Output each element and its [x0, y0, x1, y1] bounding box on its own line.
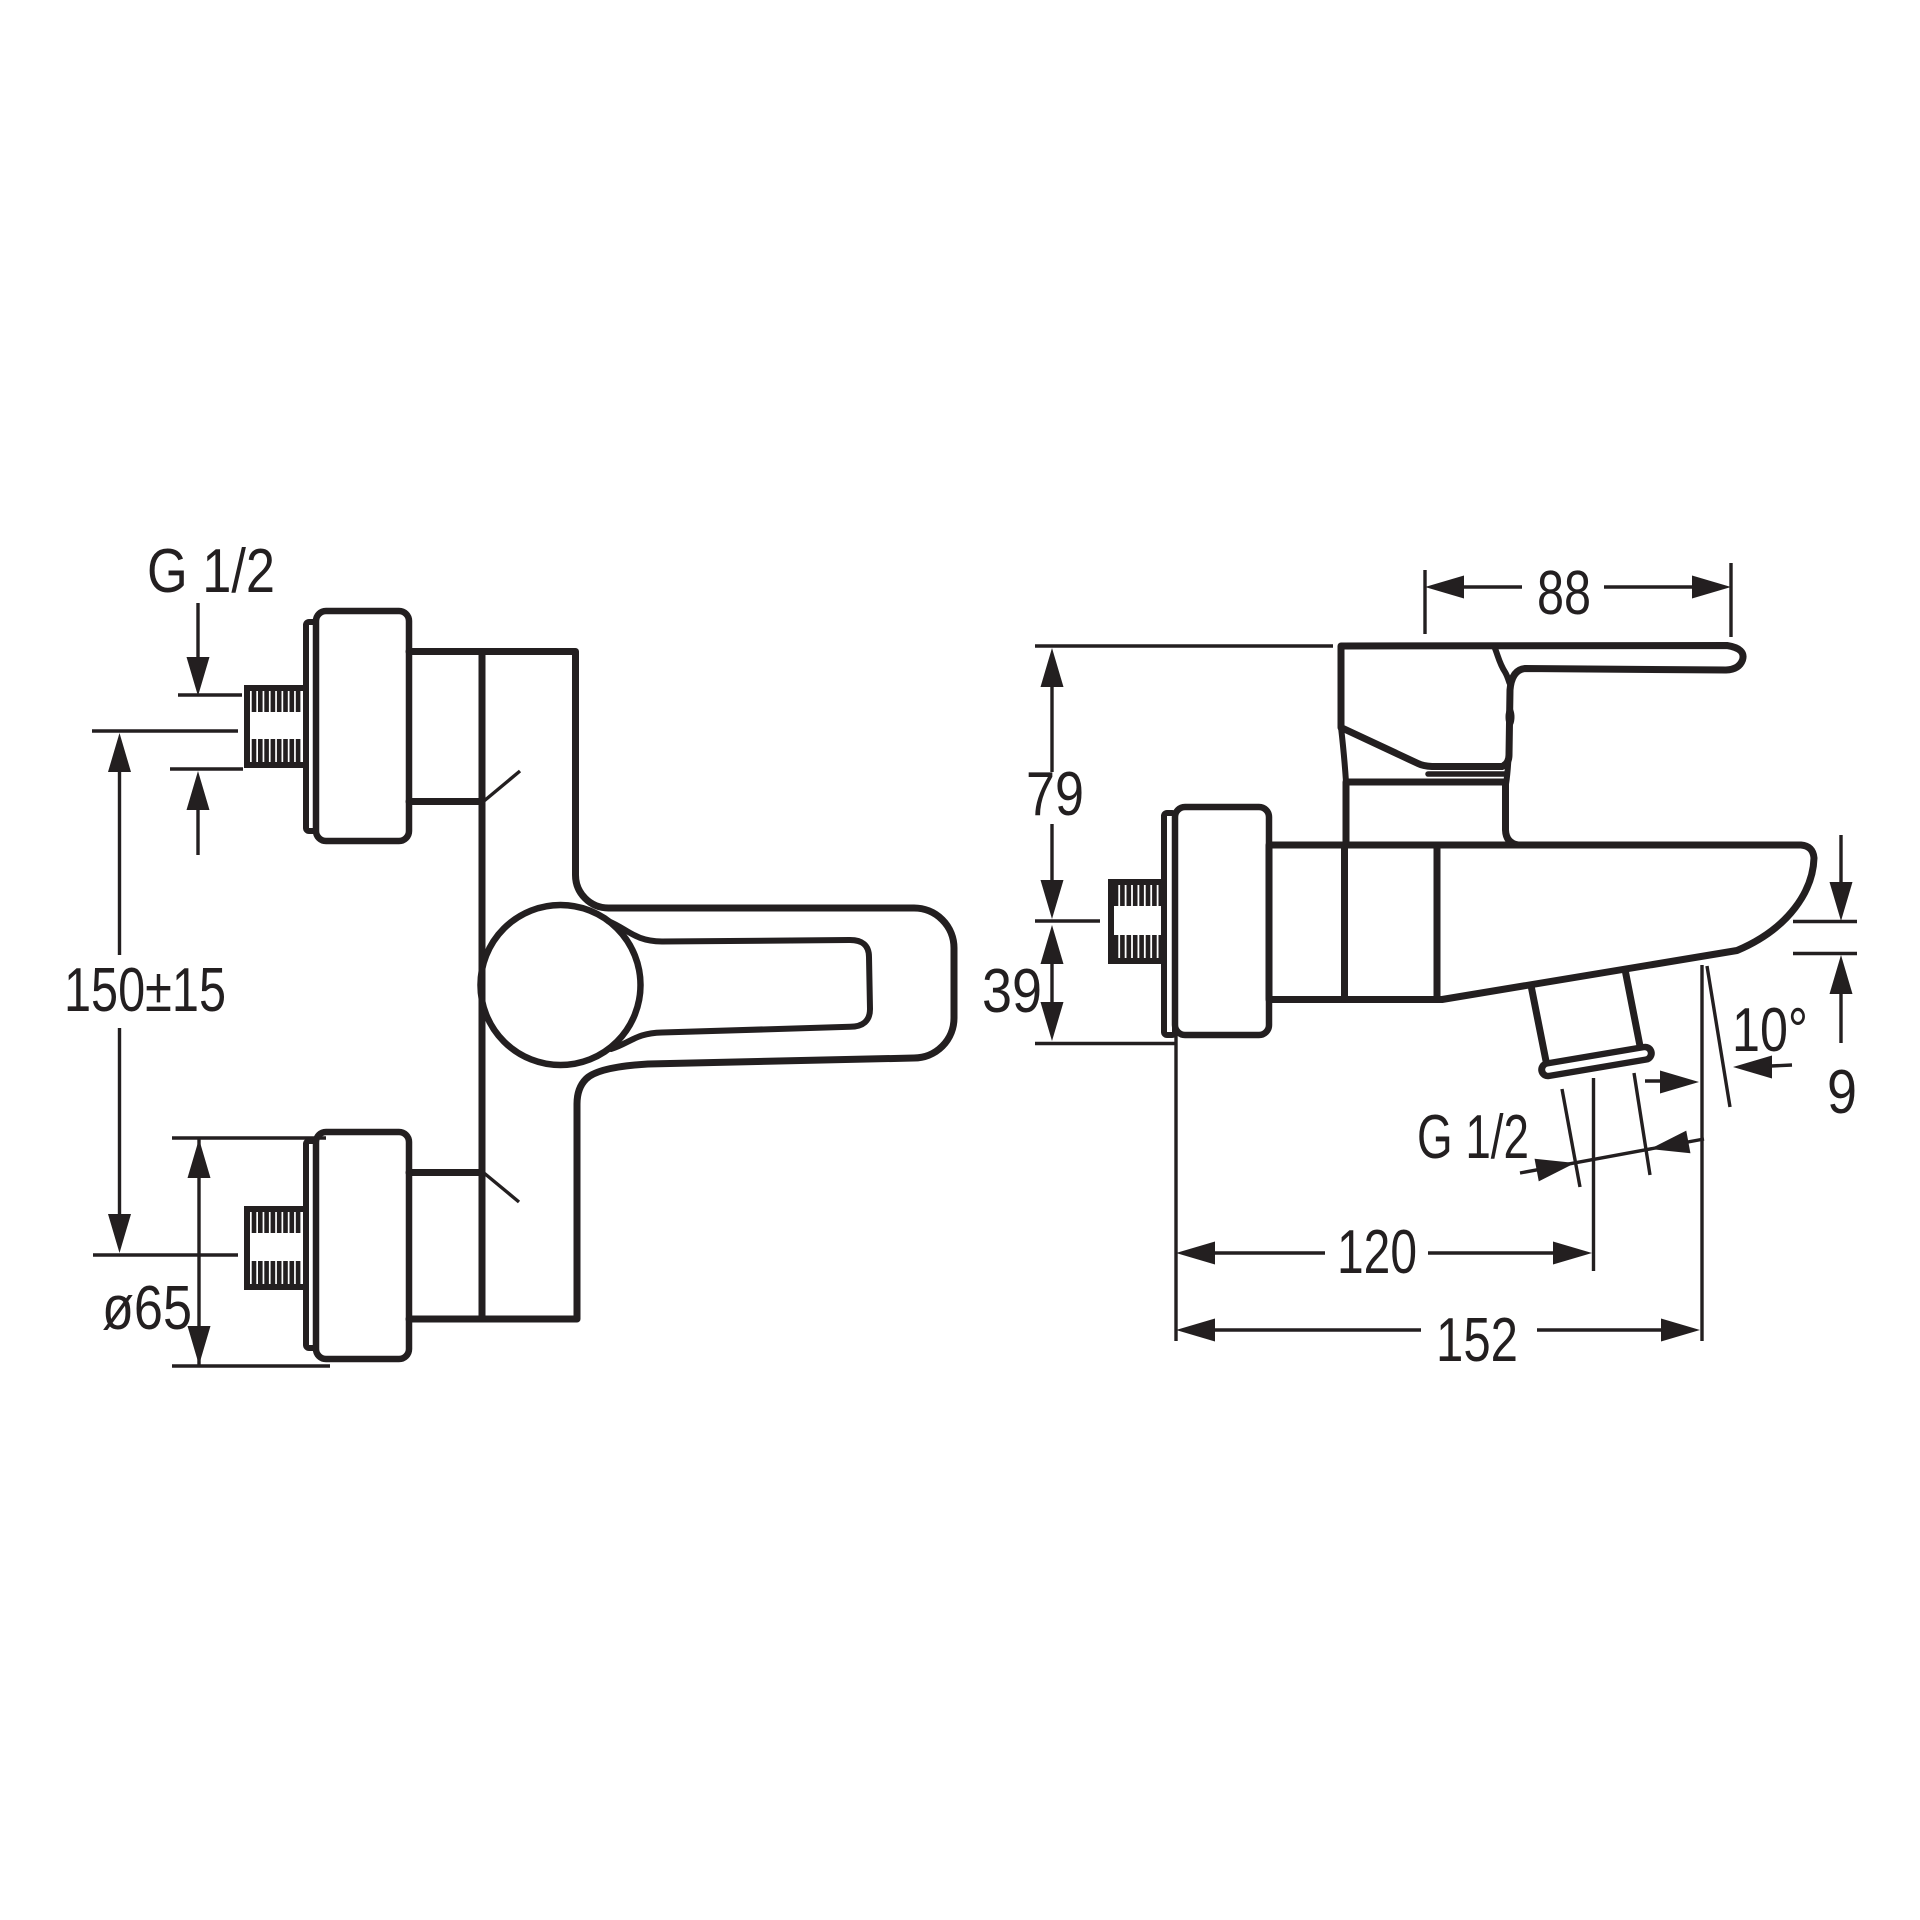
tick at handle top level	[1035, 644, 1333, 647]
handle lever and base	[1341, 646, 1743, 767]
10 degree axis line	[1707, 966, 1730, 1107]
svg-text:9: 9	[1827, 1058, 1857, 1127]
leader tick top	[484, 771, 520, 801]
angle arrow left	[1645, 1079, 1663, 1082]
handle pivot ball	[481, 905, 641, 1065]
bottom escutcheon backplate	[306, 1141, 316, 1348]
body internal edge left	[1341, 845, 1348, 1000]
right threaded nipple	[1111, 882, 1164, 961]
base-to-ring left curve	[1341, 727, 1346, 782]
svg-text:79: 79	[1026, 760, 1084, 829]
shower outlet lip	[1537, 1042, 1657, 1080]
dimension 9 ticks	[1839, 835, 1842, 883]
body and spout outline	[1269, 845, 1814, 1000]
svg-text:88: 88	[1537, 559, 1591, 628]
centerline bottom inlet	[93, 1253, 238, 1256]
shower outlet left edge	[1531, 986, 1547, 1067]
svg-text:120: 120	[1337, 1218, 1417, 1287]
wall extension line	[1174, 1035, 1177, 1341]
dimension 79	[1041, 648, 1064, 687]
right escutcheon backplate	[1164, 813, 1175, 1035]
svg-text:ø65: ø65	[102, 1274, 192, 1343]
shower outlet right edge	[1625, 970, 1640, 1047]
handle base lower cap line	[1428, 771, 1507, 777]
lever pivot pin	[1506, 707, 1515, 728]
dimension 120	[1176, 1242, 1215, 1265]
top escutcheon backplate	[306, 622, 316, 831]
tick at escutcheon bottom level	[1035, 1042, 1176, 1045]
angle reference vertical / 152 extension	[1700, 965, 1703, 1341]
tick thread top	[178, 693, 242, 696]
top threaded nipple	[247, 688, 306, 765]
dimension 88	[1423, 570, 1426, 634]
svg-text:150±15: 150±15	[64, 956, 226, 1025]
tick thread bottom	[170, 767, 243, 770]
lever front separation curve	[1494, 646, 1510, 683]
tick at inlet centerline	[1035, 919, 1100, 922]
svg-text:152: 152	[1436, 1306, 1518, 1375]
G 1/2 dimension line	[1520, 1139, 1704, 1173]
dimension ø65	[172, 1136, 326, 1139]
centerline top inlet	[92, 729, 238, 732]
dimension 39	[1041, 925, 1064, 964]
bottom escutcheon	[316, 1132, 409, 1359]
svg-text:39: 39	[982, 957, 1042, 1026]
outlet centerline extension	[1592, 1078, 1595, 1271]
dimension 152	[1176, 1319, 1215, 1342]
angle arrow right	[1733, 1056, 1772, 1079]
body internal edge right	[1434, 845, 1441, 1000]
dimension arrow down to thread top	[196, 603, 199, 660]
leader tick bottom	[484, 1173, 519, 1202]
top neck bottom edge	[409, 798, 482, 805]
dimension arrow up to thread bottom	[187, 771, 210, 810]
bottom threaded nipple	[247, 1209, 306, 1287]
svg-text:G 1/2: G 1/2	[147, 537, 275, 606]
cartridge ring	[1346, 782, 1518, 845]
G 1/2 outlet extension lines	[1562, 1089, 1580, 1187]
lever edge to ring connector	[1506, 758, 1509, 784]
body internal edge	[479, 652, 486, 1320]
dimension 150±15 line	[108, 733, 131, 772]
top escutcheon	[316, 611, 409, 841]
bottom neck top edge	[409, 1169, 482, 1176]
svg-text:10°: 10°	[1732, 996, 1808, 1065]
svg-text:G 1/2: G 1/2	[1417, 1103, 1529, 1172]
handle loop inner cutout	[608, 921, 870, 1049]
right escutcheon	[1175, 807, 1269, 1035]
body outline with handle loop	[409, 652, 954, 1320]
